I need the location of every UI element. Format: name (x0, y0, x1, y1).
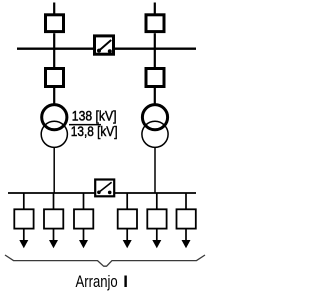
caption Arranjo I (76, 272, 128, 291)
breaker square CB3 (left, below top bus) (46, 49, 64, 87)
feeder breaker square F2 (44, 209, 63, 228)
load arrow F6 (182, 229, 191, 249)
svg-text:I: I (123, 272, 128, 291)
breaker square CB4 (right, below top bus) (146, 49, 164, 87)
feeder breaker square F3 (74, 209, 93, 228)
wire CB2 to top bus (154, 33, 156, 49)
load arrow F5 (152, 229, 161, 249)
feeder breaker square F1 (14, 209, 33, 228)
feeder wire F6 (bus to breaker) (185, 193, 187, 209)
bus tie switch S2 (lower, open switch in box) (95, 180, 114, 197)
svg-text:13,8 [kV]: 13,8 [kV] (71, 123, 118, 139)
feeder breaker square F5 (147, 209, 166, 228)
feeder breaker square F4 (118, 209, 137, 228)
bus tie switch S1 (top, open switch in box) (95, 36, 114, 54)
transformer T1 (left, two overlapping circles) (41, 105, 67, 148)
lower bus (13,8 kV busbar) (8, 192, 196, 194)
feeder wire F3 (bus to breaker) (83, 193, 85, 209)
breaker square CB2 (right incoming, above top bus) (146, 15, 164, 32)
feeder wire F4 (bus to breaker) (126, 193, 128, 209)
wire CB1 to top bus (53, 33, 55, 49)
svg-text:Arranjo: Arranjo (76, 272, 118, 291)
load arrow F1 (19, 229, 28, 249)
incoming line 1 (left supply wire) (53, 3, 55, 15)
breaker square CB1 (left incoming, above top bus) (46, 15, 64, 32)
wire T1 to lower bus (53, 147, 55, 193)
top bus (138 kV busbar) (17, 48, 196, 50)
feeder breaker square F6 (177, 209, 196, 228)
transformer T2 (right, two overlapping circles) (142, 105, 168, 148)
load arrow F2 (49, 229, 58, 249)
wire CB4 to transformer T2 (154, 88, 156, 105)
wire T2 to lower bus (154, 147, 156, 193)
feeder wire F5 (bus to breaker) (156, 193, 158, 209)
value label 138 kV (transformer primary voltage) (72, 108, 117, 124)
incoming line 2 (right supply wire) (154, 3, 156, 15)
wire CB3 to transformer T1 (53, 88, 55, 105)
svg-text:138 [kV]: 138 [kV] (72, 108, 117, 124)
feeder wire F1 (bus to breaker) (23, 193, 25, 209)
feeder wire F2 (bus to breaker) (53, 193, 55, 209)
brace (underbrace grouping the arrangement) (5, 255, 205, 266)
load arrow F3 (79, 229, 88, 249)
load arrow F4 (123, 229, 132, 249)
value label 13,8 kV (transformer secondary voltage) (71, 123, 118, 139)
fraction bar of voltage label (69, 124, 101, 126)
